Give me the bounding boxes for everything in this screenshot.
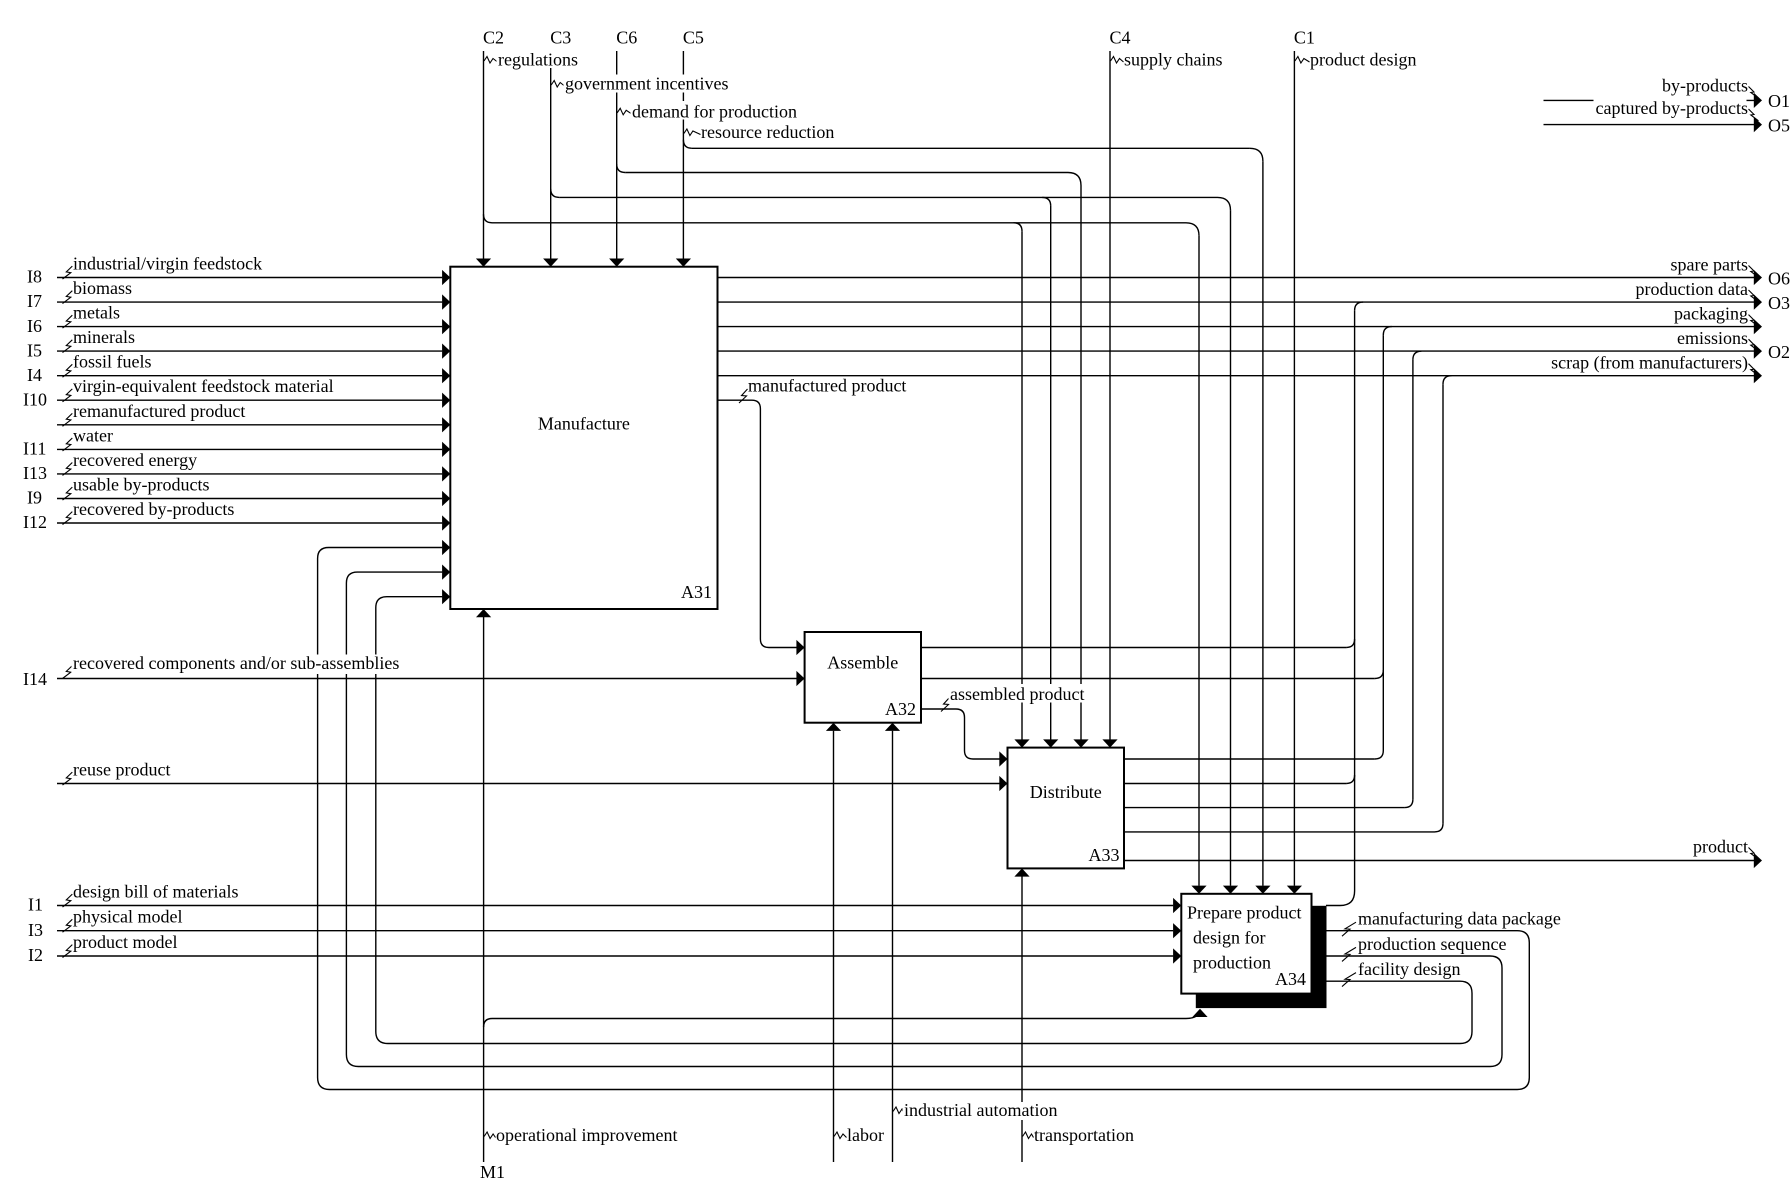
svg-text:manufactured product: manufactured product — [748, 376, 906, 396]
svg-text:O2: O2 — [1768, 342, 1790, 362]
svg-text:C6: C6 — [616, 28, 637, 48]
svg-text:labor: labor — [847, 1125, 884, 1145]
svg-text:design for: design for — [1193, 928, 1265, 948]
svg-text:O6: O6 — [1768, 269, 1790, 289]
svg-text:regulations: regulations — [498, 50, 578, 70]
svg-text:A31: A31 — [681, 582, 712, 602]
svg-text:O3: O3 — [1768, 293, 1790, 313]
svg-text:product: product — [1693, 837, 1748, 857]
svg-text:I11: I11 — [23, 439, 46, 459]
svg-text:I2: I2 — [28, 945, 43, 965]
svg-text:C5: C5 — [683, 28, 704, 48]
svg-text:C4: C4 — [1110, 28, 1131, 48]
svg-text:minerals: minerals — [73, 327, 135, 347]
svg-text:assembled product: assembled product — [950, 684, 1084, 704]
svg-text:C3: C3 — [550, 28, 571, 48]
svg-text:I5: I5 — [27, 340, 42, 360]
svg-text:M1: M1 — [480, 1162, 505, 1182]
svg-text:I7: I7 — [27, 291, 42, 311]
svg-text:Assemble: Assemble — [827, 653, 898, 673]
svg-text:metals: metals — [73, 303, 120, 323]
svg-text:facility design: facility design — [1358, 959, 1460, 979]
svg-text:transportation: transportation — [1034, 1125, 1134, 1145]
svg-text:production sequence: production sequence — [1358, 934, 1506, 954]
svg-text:physical model: physical model — [73, 907, 182, 927]
svg-text:packaging: packaging — [1674, 304, 1748, 324]
svg-text:design bill of materials: design bill of materials — [73, 882, 238, 902]
svg-text:industrial automation: industrial automation — [904, 1100, 1057, 1120]
svg-text:industrial/virgin feedstock: industrial/virgin feedstock — [73, 254, 262, 274]
svg-text:Prepare product: Prepare product — [1187, 902, 1301, 922]
svg-text:Distribute: Distribute — [1030, 782, 1102, 802]
svg-text:I1: I1 — [28, 895, 43, 915]
svg-text:government incentives: government incentives — [565, 74, 728, 94]
svg-text:production: production — [1193, 953, 1271, 973]
svg-text:emissions: emissions — [1677, 328, 1748, 348]
svg-text:manufacturing data package: manufacturing data package — [1358, 909, 1561, 929]
svg-text:usable by-products: usable by-products — [73, 475, 209, 495]
svg-text:recovered components and/or su: recovered components and/or sub-assembli… — [73, 653, 399, 673]
svg-text:A34: A34 — [1275, 969, 1306, 989]
svg-text:operational improvement: operational improvement — [496, 1125, 677, 1145]
svg-text:Manufacture: Manufacture — [538, 414, 630, 434]
svg-text:spare parts: spare parts — [1671, 255, 1748, 275]
svg-text:reuse product: reuse product — [73, 760, 170, 780]
svg-text:scrap (from manufacturers): scrap (from manufacturers) — [1551, 353, 1748, 374]
svg-text:I12: I12 — [23, 512, 47, 532]
svg-text:A33: A33 — [1089, 845, 1120, 865]
svg-text:water: water — [73, 425, 113, 445]
svg-text:product design: product design — [1310, 50, 1416, 70]
svg-text:O5: O5 — [1768, 116, 1790, 136]
svg-text:A32: A32 — [885, 699, 916, 719]
svg-text:captured by-products: captured by-products — [1596, 98, 1748, 118]
svg-text:supply chains: supply chains — [1124, 50, 1223, 70]
svg-text:I14: I14 — [23, 669, 47, 689]
svg-text:fossil fuels: fossil fuels — [73, 352, 152, 372]
svg-text:I9: I9 — [27, 488, 42, 508]
svg-text:resource reduction: resource reduction — [701, 122, 834, 142]
svg-text:I13: I13 — [23, 463, 47, 483]
svg-text:I10: I10 — [23, 389, 47, 409]
svg-text:biomass: biomass — [73, 278, 132, 298]
svg-text:C1: C1 — [1294, 28, 1315, 48]
svg-text:demand for production: demand for production — [632, 101, 797, 121]
svg-text:remanufactured product: remanufactured product — [73, 401, 245, 421]
svg-text:I3: I3 — [28, 920, 43, 940]
svg-text:by-products: by-products — [1662, 76, 1748, 96]
svg-text:virgin-equivalent feedstock ma: virgin-equivalent feedstock material — [73, 376, 334, 396]
svg-text:I8: I8 — [27, 267, 42, 287]
svg-text:I4: I4 — [27, 365, 42, 385]
svg-text:product model: product model — [73, 932, 177, 952]
svg-text:I6: I6 — [27, 316, 42, 336]
svg-text:recovered by-products: recovered by-products — [73, 499, 234, 519]
svg-text:C2: C2 — [483, 28, 504, 48]
svg-text:O1: O1 — [1768, 91, 1790, 111]
svg-text:production data: production data — [1636, 279, 1748, 299]
svg-text:recovered energy: recovered energy — [73, 450, 197, 470]
